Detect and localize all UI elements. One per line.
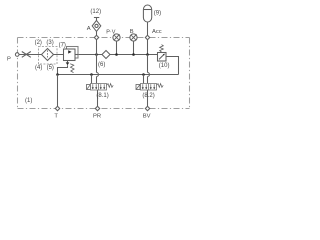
wire: T port column <box>57 75 59 107</box>
svg-text:Acc: Acc <box>152 29 162 35</box>
valve 8.1 body <box>91 84 107 91</box>
svg-text:B: B <box>130 29 134 35</box>
breather 12 circle <box>95 24 98 27</box>
node junction rail valve 8.2 <box>142 73 145 76</box>
svg-text:(5): (5) <box>47 65 54 71</box>
svg-text:(12): (12) <box>90 9 101 15</box>
svg-text:(2): (2) <box>35 40 42 46</box>
svg-text:(4): (4) <box>35 65 42 71</box>
node junction at A column <box>95 53 98 56</box>
node junction Acc column <box>146 53 149 56</box>
check valve 6 diamond <box>102 51 110 59</box>
enclosure boundary bottom (dash-dot) <box>18 108 190 110</box>
port P circle <box>15 53 19 57</box>
pressure gauge B circle <box>130 34 137 41</box>
relief valve 10 arrow <box>159 54 164 59</box>
wire: component 7 drain to tank column <box>58 65 68 74</box>
svg-text:P·V: P·V <box>106 29 116 35</box>
valve 8.1 left position flow arrows <box>92 84 94 87</box>
component 7 drain stub <box>67 61 69 63</box>
valve 8.1 right position flow arrows <box>100 84 102 87</box>
filter element (dashed) <box>47 50 49 58</box>
wire: relief valve 10 outlet to return rail <box>166 57 179 75</box>
svg-text:(8.2): (8.2) <box>142 93 154 99</box>
enclosure boundary right (dash-dot) <box>189 38 191 109</box>
valve 8.2 left position flow arrows <box>142 84 144 87</box>
wire: rail drop to valve 8.1 <box>91 75 93 84</box>
valve 8.1 solenoid <box>87 85 91 90</box>
wire: valve 8.2 to BV port <box>147 90 149 106</box>
port BV marker diamond <box>145 106 149 110</box>
port PR marker diamond <box>95 106 99 110</box>
node junction gauge PV <box>115 53 118 56</box>
svg-text:A: A <box>87 26 91 32</box>
svg-text:(6): (6) <box>98 62 105 68</box>
svg-text:BV: BV <box>143 113 151 119</box>
filter diamond <box>42 49 54 61</box>
wire: main line segment after component 7 <box>75 54 78 56</box>
relief valve 10 spring <box>160 45 164 52</box>
accumulator 9 separator line <box>144 9 152 11</box>
svg-text:(8.1): (8.1) <box>96 93 108 99</box>
valve 8.2 solenoid <box>136 85 140 90</box>
component 7 back square <box>67 47 79 59</box>
pressure gauge PV drop wire <box>116 41 118 55</box>
port A marker diamond <box>94 35 98 39</box>
svg-text:(1): (1) <box>25 98 32 104</box>
wire: rail drop to valve 8.2 <box>143 75 145 84</box>
wire: valve 8.1 to PR port <box>97 90 99 106</box>
wire: main pressure line from P to component 10 <box>19 54 157 56</box>
component 7 front square <box>64 49 76 61</box>
valve 8.2 return spring <box>157 84 164 88</box>
valve 8.2 right position flow arrows <box>150 84 152 87</box>
breather 12 diamond <box>92 20 101 31</box>
node junction rail T column <box>56 73 59 76</box>
enclosure boundary left (dash-dot) <box>17 38 19 109</box>
shutoff valve (X) <box>22 52 31 58</box>
svg-text:(3): (3) <box>46 40 53 46</box>
svg-text:(7): (7) <box>59 43 66 49</box>
svg-text:PR: PR <box>93 113 101 119</box>
pressure gauge PV circle <box>113 34 120 41</box>
enclosure boundary top (dash-dot) <box>18 37 190 39</box>
relief valve 10 body <box>158 53 167 62</box>
pressure gauge B drop wire <box>133 41 135 55</box>
node junction gauge B <box>132 53 135 56</box>
node junction rail valve 8.1 <box>90 73 93 76</box>
valve 8.2 body <box>141 84 157 91</box>
wire: breather 12 to port A <box>96 31 98 35</box>
filter dashed box <box>39 47 58 65</box>
port Acc marker diamond <box>145 35 149 39</box>
valve 8.1 return spring <box>107 84 114 88</box>
svg-text:(10): (10) <box>159 63 170 69</box>
breather 12 T-bar <box>94 17 99 19</box>
wire: A column up from main line <box>96 40 98 55</box>
wire: Acc port down to main line <box>147 40 149 55</box>
svg-text:(9): (9) <box>154 10 161 16</box>
wire: pressure drop to valve 8.1 (hop over rail) <box>96 55 98 73</box>
component 7 poppet triangle <box>68 50 71 53</box>
wire: accumulator to Acc port <box>147 22 149 35</box>
svg-text:T: T <box>54 113 58 119</box>
component 7 spring <box>70 64 74 73</box>
svg-text:P: P <box>7 56 11 62</box>
return rail wire <box>58 74 179 76</box>
port T marker diamond <box>55 106 59 110</box>
component 7 drain triangle <box>66 62 70 65</box>
accumulator 9 shell <box>143 5 151 22</box>
wire: pressure drop to valve 8.2 (hop over rail) <box>147 55 149 73</box>
